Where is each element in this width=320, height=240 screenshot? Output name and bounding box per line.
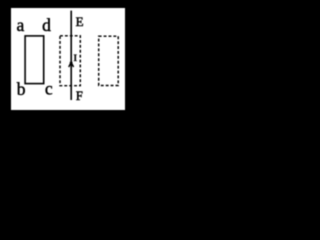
svg-text:b: b [17, 79, 26, 99]
svg-text:a: a [17, 15, 25, 35]
svg-text:c: c [45, 79, 53, 99]
svg-text:E: E [76, 14, 84, 29]
svg-text:d: d [42, 15, 51, 35]
svg-text:F: F [76, 89, 83, 103]
svg-text:I: I [74, 53, 78, 63]
